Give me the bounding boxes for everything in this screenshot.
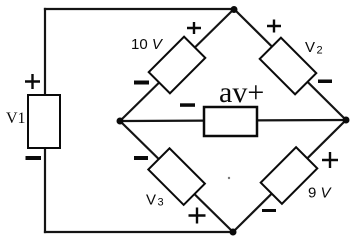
- svg-text:2: 2: [317, 45, 323, 57]
- svg-text:9 V: 9 V: [308, 185, 333, 202]
- svg-text:av+: av+: [219, 76, 264, 109]
- svg-text:V: V: [146, 192, 156, 209]
- svg-text:V1: V1: [6, 110, 26, 127]
- svg-text:V: V: [305, 39, 315, 56]
- svg-text:3: 3: [158, 197, 164, 209]
- svg-text:10 V: 10 V: [131, 36, 164, 53]
